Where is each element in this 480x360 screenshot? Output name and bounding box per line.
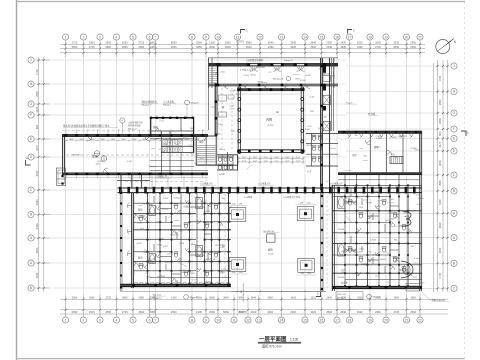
svg-text:2-a2: 2-a2: [184, 145, 188, 147]
svg-text:2-a2: 2-a2: [264, 160, 268, 162]
svg-text:M1021: M1021: [307, 145, 313, 147]
svg-text:2560: 2560: [89, 296, 95, 299]
svg-text:3275: 3275: [438, 141, 442, 147]
svg-text:2360: 2360: [410, 41, 416, 45]
svg-text:1420: 1420: [310, 310, 316, 314]
svg-text:2800: 2800: [138, 310, 144, 314]
svg-text:2-a2: 2-a2: [285, 160, 289, 162]
svg-text:2640: 2640: [326, 45, 332, 49]
svg-text:-0.020: -0.020: [179, 243, 184, 245]
svg-text:3640: 3640: [35, 247, 39, 253]
svg-text:M0921: M0921: [258, 81, 264, 83]
svg-text:2725: 2725: [106, 296, 112, 299]
svg-text:17: 17: [348, 35, 352, 39]
svg-text:2800: 2800: [150, 41, 156, 45]
svg-text:M1021: M1021: [381, 259, 387, 261]
svg-text:2640: 2640: [340, 310, 346, 314]
svg-text:2560: 2560: [89, 41, 95, 45]
svg-text:2725: 2725: [72, 41, 78, 45]
svg-text:2-a2: 2-a2: [275, 160, 279, 162]
svg-text:庭院: 庭院: [268, 248, 273, 252]
svg-text:2-a2: 2-a2: [175, 144, 179, 146]
annotation noise garage: [72, 138, 204, 168]
svg-text:1.52X: 1.52X: [321, 74, 327, 76]
svg-text:2520: 2520: [310, 45, 316, 49]
svg-text:9: 9: [205, 35, 207, 39]
svg-text:+0.000: +0.000: [373, 191, 379, 193]
svg-text:1200: 1200: [300, 203, 304, 205]
svg-text:3: 3: [99, 318, 101, 322]
svg-text:4430: 4430: [35, 223, 39, 229]
svg-text:2560: 2560: [393, 45, 399, 49]
section mark left: [26, 156, 31, 165]
svg-text:2520: 2520: [326, 310, 332, 314]
svg-text:2360: 2360: [375, 310, 381, 314]
svg-text:2360: 2360: [357, 296, 363, 299]
svg-text:JC-1: JC-1: [144, 249, 148, 251]
central entrance hall top row: [208, 58, 338, 131]
svg-text:JC-1: JC-1: [370, 243, 374, 245]
svg-text:5950: 5950: [139, 296, 145, 299]
svg-text:2640: 2640: [375, 41, 381, 45]
svg-text:-0.020: -0.020: [417, 204, 422, 206]
right axis bubbles: [451, 63, 457, 292]
svg-text:1800: 1800: [195, 139, 199, 141]
svg-text:1: 1: [467, 131, 469, 135]
svg-text:Wb-qp: Wb-qp: [394, 257, 400, 259]
window ticks garage walls: [66, 129, 203, 179]
svg-text:2725: 2725: [89, 45, 95, 49]
svg-text:3640: 3640: [35, 106, 39, 112]
svg-text:12: 12: [246, 318, 250, 322]
svg-text:+0.000: +0.000: [166, 270, 172, 272]
axis grid lines: [38, 42, 449, 316]
svg-text:1.52X: 1.52X: [416, 195, 422, 197]
svg-text:Wb-qp: Wb-qp: [366, 202, 372, 204]
annotation noise bottom-right block: [338, 187, 424, 284]
svg-text:Wb-qp-B: Wb-qp-B: [373, 297, 382, 299]
svg-text:1: 1: [26, 156, 28, 160]
svg-text:4: 4: [116, 318, 118, 322]
svg-text:JC-1: JC-1: [190, 153, 194, 155]
svg-text:2560: 2560: [105, 310, 111, 314]
svg-text:2-a2: 2-a2: [285, 157, 289, 159]
svg-text:1520: 1520: [406, 219, 410, 221]
leader lines: [168, 165, 394, 267]
svg-text:7: 7: [155, 318, 157, 322]
svg-text:2560: 2560: [89, 310, 95, 314]
svg-text:3640: 3640: [290, 41, 296, 45]
svg-text:1800: 1800: [153, 139, 157, 141]
svg-text:660: 660: [438, 131, 442, 136]
svg-text:16: 16: [320, 318, 324, 322]
svg-text:2-a2: 2-a2: [134, 229, 138, 231]
svg-text:M1021: M1021: [179, 270, 185, 272]
svg-text:1800: 1800: [69, 139, 73, 141]
svg-text:1.52X: 1.52X: [184, 207, 190, 209]
svg-text:1420: 1420: [305, 129, 309, 131]
svg-text:C2415: C2415: [330, 76, 336, 78]
svg-text:2560: 2560: [209, 310, 215, 314]
svg-text:-0.450: -0.450: [267, 125, 274, 127]
svg-text:21.6X9: 21.6X9: [338, 229, 344, 231]
drawing frame left border: [16, 0, 18, 360]
svg-text:1: 1: [353, 29, 355, 33]
svg-text:900: 900: [391, 199, 394, 201]
svg-text:16: 16: [335, 35, 339, 39]
svg-text:+0.000: +0.000: [136, 243, 142, 245]
svg-text:900: 900: [411, 246, 414, 248]
svg-text:2-a2: 2-a2: [200, 158, 204, 160]
drawing frame right border: [464, 2, 466, 359]
svg-text:1800: 1800: [164, 139, 168, 141]
svg-text:M1021: M1021: [250, 75, 256, 77]
svg-text:W6: W6: [394, 240, 397, 242]
svg-text:Wb-qp: Wb-qp: [159, 276, 165, 278]
svg-text:1420: 1420: [218, 124, 222, 126]
svg-text:2725: 2725: [138, 41, 144, 45]
svg-text:2560: 2560: [171, 45, 177, 49]
svg-text:Wb-qp: Wb-qp: [395, 187, 401, 189]
svg-text:6.00aX: 6.00aX: [376, 138, 383, 140]
svg-text:+0.000: +0.000: [361, 263, 367, 265]
svg-text:1200: 1200: [239, 272, 243, 274]
svg-text:W6: W6: [319, 68, 322, 70]
svg-text:2960: 2960: [35, 199, 39, 205]
svg-text:3640: 3640: [225, 45, 231, 49]
svg-text:2-a2: 2-a2: [253, 157, 257, 159]
svg-text:2-a2: 2-a2: [253, 160, 257, 162]
svg-text:3: 3: [99, 35, 101, 39]
svg-text:1800: 1800: [111, 139, 115, 141]
svg-text:J: J: [30, 58, 32, 62]
corridor and shafts right of courtyard: [306, 58, 358, 190]
svg-text:2360: 2360: [268, 45, 274, 49]
svg-text:Wb-4pa-9l: Wb-4pa-9l: [273, 79, 284, 81]
terrace with pedestal columns: [120, 203, 326, 293]
svg-text:57675: 57675: [239, 310, 247, 314]
svg-text:Wb-qp: Wb-qp: [219, 149, 225, 151]
svg-text:C1515: C1515: [157, 244, 163, 246]
svg-text:C2415: C2415: [351, 251, 357, 253]
section mark top 2: [348, 29, 356, 34]
svg-text:1: 1: [317, 292, 319, 296]
svg-text:12: 12: [258, 35, 262, 39]
svg-text:2-a2: 2-a2: [242, 160, 246, 162]
svg-text:1800: 1800: [122, 139, 126, 141]
svg-text:2: 2: [82, 318, 84, 322]
svg-text:3640: 3640: [267, 310, 273, 314]
svg-text:Wb-qp: Wb-qp: [191, 244, 197, 246]
svg-text:车库: 车库: [92, 154, 98, 159]
svg-text:3320: 3320: [393, 41, 399, 45]
svg-text:1735: 1735: [35, 69, 39, 75]
svg-text:C1515: C1515: [419, 283, 425, 285]
svg-text:900: 900: [190, 128, 193, 130]
svg-text:19: 19: [368, 318, 372, 322]
svg-text:5950: 5950: [122, 45, 128, 49]
svg-text:1200: 1200: [300, 273, 304, 275]
svg-text:2-a2: 2-a2: [189, 145, 193, 147]
left-center service block: [150, 117, 194, 173]
svg-text:5950: 5950: [196, 45, 202, 49]
right dimension lines: [433, 60, 448, 292]
svg-text:2725: 2725: [393, 310, 399, 314]
svg-text:W6: W6: [355, 135, 358, 137]
svg-text:1200: 1200: [341, 251, 345, 253]
svg-text:1200: 1200: [220, 244, 224, 246]
svg-text:15: 15: [320, 35, 324, 39]
svg-text:3640: 3640: [35, 170, 39, 176]
svg-text:-0.450: -0.450: [268, 253, 275, 255]
svg-text:C1515: C1515: [167, 253, 173, 255]
svg-text:4430: 4430: [35, 272, 39, 278]
svg-text:3.6X7: 3.6X7: [163, 246, 168, 248]
svg-text:18: 18: [368, 35, 372, 39]
svg-text:2800: 2800: [105, 45, 111, 49]
svg-text:4: 4: [116, 35, 118, 39]
svg-text:Wb-qp: Wb-qp: [210, 259, 216, 261]
svg-text:1420: 1420: [228, 207, 232, 209]
svg-text:面积:976. 0m²: 面积:976. 0m²: [262, 343, 282, 348]
top axis bubbles: [63, 34, 424, 40]
svg-text:2560: 2560: [394, 157, 398, 159]
svg-text:Wb-qp: Wb-qp: [345, 197, 351, 199]
svg-text:1200: 1200: [239, 204, 243, 206]
svg-text:11: 11: [232, 318, 236, 322]
svg-text:2560: 2560: [138, 45, 144, 49]
svg-text:+0.000: +0.000: [305, 75, 311, 77]
left axis bubbles: [28, 57, 34, 291]
svg-text:1300: 1300: [150, 45, 156, 49]
svg-text:2560: 2560: [179, 230, 183, 232]
svg-text:1735: 1735: [438, 272, 442, 278]
svg-text:5: 5: [132, 318, 134, 322]
svg-text:1200: 1200: [307, 203, 311, 205]
svg-text:1420: 1420: [291, 296, 297, 299]
svg-text:1300: 1300: [196, 310, 202, 314]
svg-text:W6: W6: [167, 134, 170, 136]
title 一层平面图: [258, 335, 301, 348]
svg-text:14: 14: [303, 35, 307, 39]
svg-text:2560: 2560: [105, 41, 111, 45]
svg-text:2640: 2640: [327, 296, 333, 299]
svg-text:C2415: C2415: [211, 107, 217, 109]
svg-text:-0.020: -0.020: [220, 72, 225, 74]
svg-text:3640: 3640: [438, 118, 442, 124]
svg-text:1200: 1200: [357, 251, 361, 253]
svg-text:14: 14: [280, 318, 284, 322]
bottom dimension lines: [60, 295, 448, 317]
svg-text:6.00aX: 6.00aX: [183, 136, 190, 138]
notes under bottom-left block: [153, 294, 198, 299]
svg-text:2-a2: 2-a2: [161, 151, 165, 153]
svg-text:2560: 2560: [72, 45, 78, 49]
svg-text:13: 13: [257, 318, 261, 322]
svg-text:-0.020: -0.020: [137, 222, 142, 224]
svg-text:F: F: [30, 113, 32, 117]
svg-text:2800: 2800: [122, 296, 128, 299]
svg-text:2520: 2520: [357, 41, 363, 45]
svg-text:2560: 2560: [394, 296, 400, 299]
svg-text:17: 17: [335, 318, 339, 322]
svg-text:Wb/φp-B: Wb/φp-B: [191, 102, 200, 104]
svg-text:2560: 2560: [171, 310, 177, 314]
annotation noise right corridor: [305, 111, 335, 181]
svg-text:1:100: 1:100: [290, 338, 298, 342]
svg-text:2-a2: 2-a2: [296, 160, 300, 162]
north arrow: [436, 39, 457, 54]
section mark bottom 1: [316, 292, 321, 297]
svg-text:-0.020: -0.020: [363, 200, 368, 202]
svg-text:+0.000: +0.000: [300, 80, 306, 82]
svg-text:Wb-qp: Wb-qp: [149, 166, 155, 168]
svg-text:3275: 3275: [35, 145, 39, 151]
svg-text:3640: 3640: [223, 296, 229, 299]
svg-text:5950: 5950: [150, 310, 156, 314]
svg-text:660: 660: [35, 124, 39, 129]
svg-text:8: 8: [191, 35, 193, 39]
svg-text:1800: 1800: [143, 139, 147, 141]
svg-text:Wb-qp: Wb-qp: [372, 255, 378, 257]
svg-text:900: 900: [312, 135, 315, 137]
svg-text:1200: 1200: [163, 144, 167, 146]
svg-text:3640: 3640: [268, 41, 274, 45]
svg-text:1800: 1800: [185, 139, 189, 141]
svg-text:Wb-φp-1 ①: Wb-φp-1 ①: [142, 103, 152, 106]
svg-text:+0.00: +0.00: [309, 97, 315, 99]
svg-text:6.00aX: 6.00aX: [411, 148, 418, 150]
svg-text:5: 5: [132, 35, 134, 39]
svg-text:1200: 1200: [96, 163, 100, 165]
svg-text:3640: 3640: [438, 160, 442, 166]
svg-text:C2415: C2415: [189, 273, 195, 275]
svg-text:M1021: M1021: [410, 211, 416, 213]
svg-text:6.00aX: 6.00aX: [414, 258, 421, 260]
svg-text:2560: 2560: [225, 41, 231, 45]
svg-text:1800: 1800: [174, 139, 178, 141]
svg-text:1200: 1200: [307, 273, 311, 275]
svg-text:Wb-qp: Wb-qp: [147, 260, 153, 262]
svg-text:3320: 3320: [340, 45, 346, 49]
svg-text:3640: 3640: [310, 41, 316, 45]
svg-text:900: 900: [364, 155, 367, 157]
bottom-right entrance steps: [406, 284, 420, 292]
svg-text:1420: 1420: [388, 212, 392, 214]
svg-text:2-a2: 2-a2: [181, 272, 185, 274]
svg-text:2-a2: 2-a2: [264, 157, 268, 159]
svg-text:M1021: M1021: [195, 251, 201, 253]
svg-text:2560: 2560: [403, 213, 407, 215]
svg-text:-0.020: -0.020: [215, 133, 220, 135]
svg-text:1: 1: [246, 29, 248, 33]
svg-text:一层平面图: 一层平面图: [259, 335, 287, 343]
svg-text:1420: 1420: [146, 276, 150, 278]
svg-text:1420: 1420: [141, 216, 145, 218]
notes above service block: [142, 100, 200, 117]
svg-text:2725: 2725: [122, 310, 128, 314]
svg-text:6.00aX: 6.00aX: [418, 198, 425, 200]
svg-text:2560: 2560: [122, 41, 128, 45]
shear wall note: [128, 121, 143, 131]
svg-text:W6-qp-12: W6-qp-12: [153, 297, 163, 299]
svg-text:1520: 1520: [413, 277, 417, 279]
top-left wing garage: [62, 131, 208, 178]
svg-text:内院: 内院: [266, 117, 272, 122]
svg-text:18: 18: [348, 318, 352, 322]
svg-text:4430: 4430: [438, 199, 442, 205]
svg-text:1: 1: [65, 35, 67, 39]
svg-text:3640: 3640: [251, 310, 257, 314]
svg-text:1.52X: 1.52X: [159, 239, 165, 241]
annotation noise right wing: [344, 134, 419, 171]
svg-text:1800: 1800: [90, 139, 94, 141]
svg-text:M0921: M0921: [391, 137, 397, 139]
svg-text:W6.T-16: W6.T-16: [338, 294, 347, 296]
svg-text:3320: 3320: [357, 310, 363, 314]
svg-text:Wb-qp-12: Wb-qp-12: [128, 129, 138, 131]
svg-text:6.06X9: 6.06X9: [370, 240, 376, 242]
svg-text:1420: 1420: [231, 130, 235, 132]
svg-text:1200: 1200: [232, 204, 236, 206]
svg-text:2560: 2560: [72, 296, 78, 299]
svg-text:2560: 2560: [411, 296, 417, 299]
svg-text:C2415: C2415: [243, 75, 249, 77]
svg-text:10: 10: [216, 35, 220, 39]
svg-text:M1021: M1021: [165, 262, 171, 264]
annotation noise corridors: [211, 94, 242, 151]
svg-text:8: 8: [191, 318, 193, 322]
svg-text:15: 15: [303, 318, 307, 322]
svg-text:900: 900: [391, 218, 394, 220]
svg-text:5950: 5950: [246, 41, 252, 45]
svg-text:1420: 1420: [322, 117, 326, 119]
svg-text:1800: 1800: [80, 139, 84, 141]
svg-text:22: 22: [418, 318, 422, 322]
note bottom right: [421, 291, 449, 302]
svg-text:1800: 1800: [132, 139, 136, 141]
bottom axis bubbles: [63, 317, 424, 323]
svg-text:JC-1: JC-1: [375, 275, 379, 277]
svg-text:1520: 1520: [403, 272, 407, 274]
svg-text:J: J: [453, 64, 455, 68]
svg-text:1300: 1300: [209, 41, 215, 45]
central courtyard 内院: [237, 87, 304, 165]
svg-text:2360: 2360: [267, 296, 273, 299]
svg-text:G: G: [453, 111, 456, 115]
svg-text:2725: 2725: [375, 45, 381, 49]
svg-text:900: 900: [221, 271, 224, 273]
svg-text:900: 900: [368, 252, 371, 254]
svg-text:-0.020: -0.020: [229, 105, 234, 107]
svg-text:Wb-qp-12: Wb-qp-12: [284, 60, 294, 62]
svg-text:M1021: M1021: [318, 128, 324, 130]
svg-text:6.00aX: 6.00aX: [405, 216, 412, 218]
svg-text:3640: 3640: [438, 222, 442, 228]
svg-text:1420: 1420: [310, 111, 314, 113]
svg-text:20: 20: [384, 318, 388, 322]
svg-text:1200: 1200: [232, 272, 236, 274]
top dimension lines: [60, 40, 425, 57]
annotation noise bottom-left block: [134, 197, 232, 280]
junction walls below garage: [117, 170, 208, 188]
spine colonnade wall: [118, 182, 422, 199]
svg-text:3640: 3640: [246, 45, 252, 49]
svg-text:13: 13: [280, 35, 284, 39]
svg-text:1200: 1200: [385, 220, 389, 222]
svg-text:2360: 2360: [357, 45, 363, 49]
boxed note below right block: [336, 292, 381, 300]
